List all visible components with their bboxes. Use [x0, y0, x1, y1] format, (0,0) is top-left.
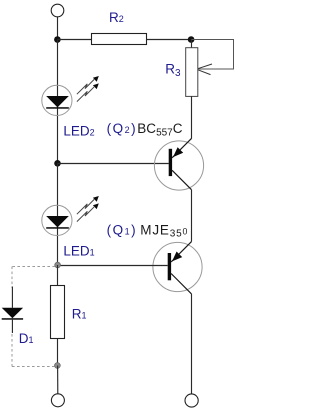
wire J2 to wiper loop (right and down) [191, 40, 233, 70]
dashed branch wire (bottom) to J5 [12, 366, 55, 368]
node J3 (junction dot) [54, 160, 61, 167]
terminal T3 (bottom right) [185, 394, 198, 407]
transistor Q2 emitter (arrow in, PNP) [172, 138, 191, 157]
transistor Q1 emitter (arrow in, PNP) [171, 242, 191, 262]
wire Q1 base to node J4 [58, 265, 168, 267]
transistor Q1 collector [171, 274, 191, 294]
dashed branch wire (top) J4 to D1 [12, 266, 55, 268]
LED D2 cathode bar [46, 107, 69, 109]
wire R2 to node J2 [147, 39, 192, 41]
resistor R2 (body) [92, 34, 147, 45]
LED D1 circle [42, 205, 72, 235]
wiper arrow of R3 [196, 64, 212, 75]
wire J3 to Q2 base [58, 163, 169, 165]
wire Q2 collector to Q1 emitter [191, 190, 193, 242]
wire J3 down through LED1 to node J4 [57, 164, 59, 266]
terminal T1 (top left) [51, 4, 64, 17]
node J2 (junction dot) [188, 36, 195, 43]
dashed branch wire (left upper) down to D1 [11, 267, 13, 289]
LED D1 triangle (anode) [46, 216, 69, 227]
potentiometer R3 (body) [186, 48, 198, 97]
LED D1 cathode bar [46, 227, 69, 229]
svg-text:(Q2): (Q2) [107, 121, 138, 136]
terminal T2 (bottom left) [51, 394, 64, 407]
wire J1 to R2 [57, 39, 91, 41]
transistor Q2 base bar [169, 149, 172, 176]
wire Q1 collector to terminal T3 [191, 294, 193, 394]
LED D2 triangle (anode) [46, 96, 69, 107]
wire J2 down to R3 [191, 40, 193, 48]
LED D2 circle [42, 85, 72, 115]
diode D1 anode lead [11, 287, 13, 308]
wire J1 down through LED2 to node J3 [57, 40, 59, 164]
transistor Q1 circle [153, 242, 202, 291]
svg-text:(Q1): (Q1) [107, 222, 138, 237]
wire T1 to node J1 [57, 17, 59, 40]
LED D1 emission arrow 2 [77, 203, 99, 221]
transistor Q1 base bar [168, 253, 171, 280]
node J5 (gray junction dot) [55, 363, 61, 369]
resistor R1 (body) [51, 286, 65, 339]
LED D2 emission arrow 1 [77, 76, 99, 94]
wire R3 to Q2 emitter [191, 96, 193, 138]
wire J5 to terminal T2 [57, 366, 59, 394]
diode D1 triangle [2, 308, 23, 319]
LED D1 emission arrow 1 [77, 196, 99, 214]
dashed branch wire (left lower) D1 down [11, 334, 13, 367]
node J1 (junction dot) [54, 36, 61, 43]
wire J4 to R1 [57, 265, 59, 286]
transistor Q2 collector [172, 170, 191, 189]
diode D1 cathode lead [11, 320, 13, 333]
node J4 (gray junction dot) [55, 262, 61, 268]
transistor Q2 circle [154, 141, 203, 190]
wire R1 to node J5 [57, 339, 59, 366]
LED D2 emission arrow 2 [77, 83, 99, 101]
diode D1 cathode bar [2, 318, 23, 320]
